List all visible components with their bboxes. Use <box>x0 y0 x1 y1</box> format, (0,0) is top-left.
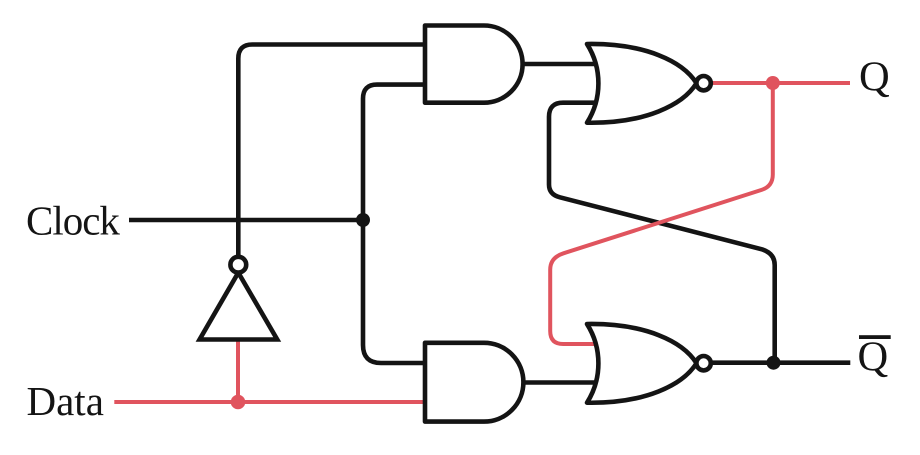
wire clock junction down to bottom AND upper input <box>363 220 425 363</box>
NOR gate top body <box>587 44 697 123</box>
svg-text:Clock: Clock <box>26 198 120 244</box>
wire Qbar output <box>710 360 851 365</box>
NOR gate top bubble <box>696 76 710 90</box>
wire bottom AND output to bottom NOR lower input <box>523 380 598 385</box>
wire black feedback from top NOR lower input to Qbar node <box>549 103 775 363</box>
wire clock junction up to top AND lower input <box>363 85 425 220</box>
NOR gate bottom bubble <box>696 356 710 370</box>
overline of Qbar <box>859 335 891 339</box>
wire top AND output to top NOR upper input <box>523 62 600 67</box>
junction dot Data <box>231 395 246 410</box>
svg-text:Q: Q <box>859 54 890 101</box>
junction dot clock <box>356 213 370 227</box>
wire red feedback from Q node to bottom NOR upper input <box>550 83 773 344</box>
inverter triangle <box>200 273 278 340</box>
svg-text:Data: Data <box>27 378 104 424</box>
svg-text:Q: Q <box>858 334 889 381</box>
junction dot Q <box>766 76 780 90</box>
AND gate bottom <box>425 343 523 422</box>
wire Data to inverter input <box>236 340 240 403</box>
wire Clock horizontal <box>129 218 363 223</box>
wire Data horizontal <box>114 400 425 404</box>
inverter bubble <box>230 257 246 273</box>
wire inverter output up to top AND upper input <box>238 45 425 258</box>
NOR gate bottom body <box>587 324 697 403</box>
wire Q output <box>711 81 850 85</box>
junction dot Qbar <box>767 356 781 370</box>
AND gate top <box>425 26 523 103</box>
